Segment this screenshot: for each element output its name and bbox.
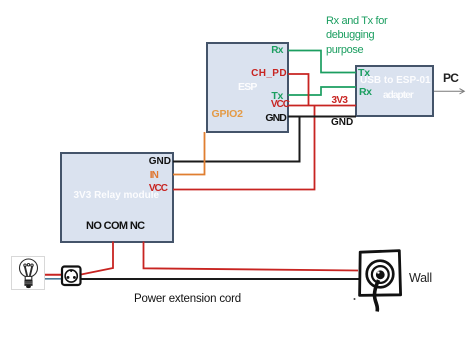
- pin labels NO COM NC (relay): [86, 221, 145, 232]
- wire blue bulb to outlet: [45, 278, 62, 280]
- pin label Rx (adapter): [359, 87, 372, 98]
- power socket icon (extension cord outlet): [62, 267, 81, 286]
- light bulb box: [11, 256, 45, 290]
- relay title: [74, 191, 160, 201]
- ESP module box U1: [206, 42, 289, 133]
- net label GND (between boxes): [331, 118, 353, 128]
- wire red 3V3 down to relay VCC: [173, 106, 315, 190]
- wire red bulb to outlet: [45, 274, 62, 276]
- wire red relay COM to wall outlet: [144, 242, 359, 271]
- pin label CH_PD (ESP): [251, 69, 287, 79]
- wire red VCC/3V3 rail: [288, 105, 356, 107]
- annotation: Rx and Tx for debugging purpose: [326, 14, 387, 58]
- label Power extension cord: [134, 294, 241, 306]
- ESP label: [238, 82, 257, 93]
- wire green ESP.Rx to adapter.Tx: [288, 51, 356, 73]
- wire orange GPIO2 to relay IN: [173, 132, 205, 175]
- net label 3V3: [332, 96, 348, 106]
- pin label Tx (ESP): [271, 91, 283, 102]
- pin label GND (ESP): [265, 113, 286, 124]
- pin label Rx (ESP): [271, 46, 283, 56]
- wall outlet with plug icon: [360, 251, 401, 312]
- wire black outlet to wall outlet: [81, 278, 359, 280]
- label PC: [443, 72, 458, 84]
- pin label Tx (adapter): [358, 68, 370, 79]
- wire red relay NO to outlet: [81, 242, 113, 275]
- pin label IN (relay): [150, 171, 158, 181]
- adapter title line 2: [383, 91, 413, 101]
- wire black GND down to relay GND: [173, 117, 300, 162]
- wire green ESP.Tx to adapter.Rx: [288, 87, 356, 95]
- arrow adapter to PC: [434, 89, 464, 94]
- pin label VCC (relay): [149, 184, 167, 194]
- wire red CH_PD to 3V3: [288, 74, 309, 106]
- adapter title line 1: [360, 76, 431, 86]
- pin label VCC (ESP): [271, 100, 289, 110]
- light bulb lamp icon: [20, 259, 38, 288]
- artifact dot: [354, 298, 356, 300]
- USB to ESP-01 adapter box U2: [355, 65, 434, 117]
- label Wall: [409, 272, 432, 285]
- pin label GND (relay): [149, 157, 171, 167]
- pin label GPIO2 (ESP): [212, 109, 243, 120]
- wire black ESP GND to adapter GND: [288, 116, 356, 118]
- relay module box U3: [60, 152, 174, 243]
